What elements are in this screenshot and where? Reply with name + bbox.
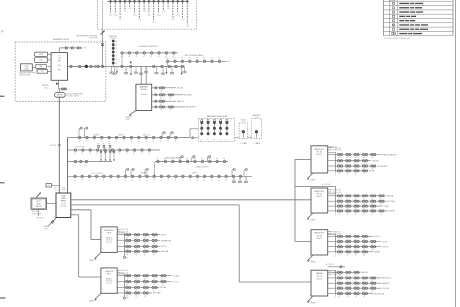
- svg-text:2/0: 2/0: [54, 188, 56, 190]
- svg-text:1ST FLR RECEPT: 1ST FLR RECEPT: [91, 173, 104, 175]
- svg-text:g1: g1: [339, 296, 341, 298]
- svg-text:BEDROOM 1: BEDROOM 1: [315, 149, 325, 151]
- svg-text:a1: a1: [111, 153, 113, 155]
- svg-text:a1: a1: [86, 141, 88, 143]
- svg-text:g1: g1: [161, 97, 163, 99]
- svg-text:a1: a1: [121, 56, 123, 58]
- svg-text:BEDROOM 4: BEDROOM 4: [104, 230, 114, 232]
- svg-text:g1: g1: [347, 254, 349, 256]
- svg-text:17: 17: [334, 174, 336, 176]
- svg-text:s1: s1: [225, 139, 227, 141]
- svg-text:2#12: 2#12: [181, 19, 185, 21]
- svg-text:a1: a1: [141, 153, 143, 155]
- svg-text:a1: a1: [74, 153, 76, 155]
- svg-text:b2: b2: [189, 58, 191, 60]
- svg-text:g1: g1: [153, 243, 155, 245]
- svg-text:2#12: 2#12: [162, 11, 166, 13]
- svg-text:g1: g1: [136, 284, 138, 286]
- svg-text:CTRL: CTRL: [39, 60, 43, 62]
- svg-text:a1: a1: [131, 179, 133, 181]
- svg-text:17: 17: [334, 297, 336, 299]
- svg-text:GFI DIM: GFI DIM: [160, 287, 167, 289]
- svg-text:g1: g1: [144, 296, 146, 298]
- svg-text:g1: g1: [136, 296, 138, 298]
- svg-text:a1: a1: [145, 141, 147, 143]
- svg-text:a1: a1: [80, 165, 82, 167]
- svg-text:g1: g1: [153, 284, 155, 286]
- svg-text:BEDROOM 3: BEDROOM 3: [315, 233, 325, 235]
- svg-text:b2: b2: [196, 58, 198, 60]
- svg-text:2#12: 2#12: [133, 15, 137, 17]
- svg-text:CO DET: CO DET: [240, 120, 246, 122]
- svg-text:15A DIM: 15A DIM: [372, 160, 379, 163]
- svg-text:g1: g1: [339, 157, 341, 159]
- svg-text:— AC CONDENS FEED —: — AC CONDENS FEED —: [183, 54, 205, 57]
- svg-text:a1: a1: [85, 165, 87, 167]
- svg-text:1PH 3W: 1PH 3W: [106, 283, 112, 285]
- svg-text:b2: b2: [186, 158, 188, 160]
- svg-text:g1: g1: [153, 237, 155, 239]
- svg-text:g1: g1: [339, 254, 341, 256]
- svg-text:2#12: 2#12: [152, 22, 156, 24]
- svg-text:g1: g1: [347, 296, 349, 298]
- svg-text:a1: a1: [96, 153, 98, 155]
- svg-text:a1: a1: [78, 141, 80, 143]
- svg-text:FU: FU: [41, 71, 43, 73]
- svg-text:KIT RECEPT: KIT RECEPT: [76, 147, 85, 149]
- svg-text:BASEMENT FINISH PLAN: BASEMENT FINISH PLAN: [207, 115, 228, 118]
- svg-text:17: 17: [334, 215, 336, 217]
- svg-text:WHOLE HOUSE GEN: WHOLE HOUSE GEN: [19, 72, 36, 74]
- svg-text:g1: g1: [127, 296, 129, 298]
- svg-text:a1: a1: [95, 179, 97, 181]
- svg-text:a1: a1: [150, 56, 152, 58]
- svg-text:a1: a1: [101, 141, 103, 143]
- svg-text:g1: g1: [153, 290, 155, 292]
- svg-text:2#12: 2#12: [148, 15, 152, 17]
- svg-text:a1: a1: [133, 153, 135, 155]
- svg-text:g1: g1: [153, 278, 155, 280]
- svg-text:g1: g1: [153, 254, 155, 256]
- svg-text:PANEL: PANEL: [61, 200, 66, 203]
- svg-text:FAN GFI: FAN GFI: [177, 100, 184, 103]
- svg-text:A SYM: A SYM: [390, 0, 396, 2]
- svg-text:SW: SW: [58, 70, 61, 72]
- svg-text:a1: a1: [74, 165, 76, 167]
- svg-text:20A GFI: 20A GFI: [389, 210, 396, 213]
- svg-text:g1: g1: [144, 284, 146, 286]
- svg-text:g1: g1: [162, 284, 164, 286]
- svg-text:2#12: 2#12: [176, 15, 180, 17]
- svg-text:b2: b2: [211, 58, 213, 60]
- svg-text:g1: g1: [380, 204, 382, 206]
- svg-text:g1: g1: [355, 214, 357, 216]
- svg-text:g1: g1: [363, 214, 365, 216]
- svg-text:HALL SD: HALL SD: [361, 271, 369, 274]
- svg-text:g1: g1: [136, 243, 138, 245]
- svg-text:g1: g1: [363, 173, 365, 175]
- svg-text:s1: s1: [200, 139, 202, 141]
- svg-text:a1: a1: [110, 179, 112, 181]
- svg-text:a1: a1: [160, 141, 162, 143]
- svg-text:a1: a1: [138, 141, 140, 143]
- svg-text:MTS: MTS: [39, 54, 42, 56]
- svg-text:BY UTILITY: BY UTILITY: [90, 38, 98, 40]
- svg-text:DIM BED RM: DIM BED RM: [161, 240, 172, 242]
- svg-text:a1: a1: [89, 153, 91, 155]
- svg-text:20A GFI: 20A GFI: [374, 251, 381, 254]
- svg-text:g1: g1: [347, 214, 349, 216]
- svg-text:g1: g1: [339, 173, 341, 175]
- svg-text:a1: a1: [175, 179, 177, 181]
- svg-text:a1: a1: [167, 179, 169, 181]
- svg-text:g1: g1: [144, 237, 146, 239]
- svg-text:42 CKT: 42 CKT: [61, 203, 66, 205]
- svg-text:AFCI FAN: AFCI FAN: [153, 292, 161, 295]
- svg-text:2/0 CU: 2/0 CU: [44, 87, 50, 89]
- svg-text:CLG 15A: CLG 15A: [382, 287, 390, 290]
- svg-text:CLG 15A: CLG 15A: [172, 275, 180, 278]
- svg-text:a1: a1: [173, 56, 175, 58]
- svg-text:DINING: DINING: [192, 173, 198, 175]
- svg-text:a1: a1: [124, 179, 126, 181]
- svg-text:1PH 3W: 1PH 3W: [106, 242, 112, 244]
- svg-text:a1: a1: [117, 179, 119, 181]
- svg-text:WP CO: WP CO: [161, 246, 167, 248]
- svg-text:g1: g1: [372, 157, 374, 159]
- svg-text:g1: g1: [127, 243, 129, 245]
- svg-text:a1: a1: [148, 153, 150, 155]
- svg-text:CLG KIT: CLG KIT: [382, 247, 389, 249]
- svg-text:SWITCH: SWITCH: [36, 206, 43, 208]
- svg-text:BED RM RECEPT: BED RM RECEPT: [383, 154, 397, 156]
- svg-text:g1: g1: [372, 214, 374, 216]
- svg-text:PNL B3: PNL B3: [317, 235, 323, 237]
- svg-text:20A 20A: 20A 20A: [387, 195, 394, 198]
- svg-text:a1: a1: [182, 179, 184, 181]
- svg-text:#2/0 CU: #2/0 CU: [50, 145, 57, 147]
- svg-text:CU: CU: [54, 190, 56, 192]
- svg-text:a1: a1: [139, 179, 141, 181]
- svg-text:a1: a1: [160, 179, 162, 181]
- svg-text:b2: b2: [218, 58, 220, 60]
- svg-text:2#12: 2#12: [167, 8, 171, 10]
- svg-text:g1: g1: [355, 173, 357, 175]
- svg-text:AFCI 20A: AFCI 20A: [161, 250, 169, 253]
- svg-text:SUB PNL: SUB PNL: [140, 89, 147, 91]
- svg-text:a1: a1: [126, 153, 128, 155]
- svg-text:LIVING RM: LIVING RM: [140, 173, 148, 175]
- svg-text:BEDRM 1: BEDRM 1: [93, 135, 100, 137]
- svg-text:CO SD: CO SD: [382, 241, 388, 243]
- svg-text:a1: a1: [196, 179, 198, 181]
- svg-text:a1: a1: [167, 141, 169, 143]
- svg-text:a1: a1: [82, 153, 84, 155]
- svg-text:a1: a1: [81, 179, 83, 181]
- svg-text:g1: g1: [355, 296, 357, 298]
- svg-text:g1: g1: [127, 237, 129, 239]
- svg-text:g1: g1: [162, 278, 164, 280]
- svg-text:a1: a1: [128, 56, 130, 58]
- svg-text:a1: a1: [203, 179, 205, 181]
- svg-text:a1: a1: [152, 141, 154, 143]
- svg-text:g1: g1: [127, 278, 129, 280]
- svg-text:b2: b2: [223, 158, 225, 160]
- svg-text:g1: g1: [127, 254, 129, 256]
- svg-text:g1: g1: [127, 284, 129, 286]
- svg-text:N: N: [1, 33, 2, 35]
- svg-text:120/240V: 120/240V: [60, 206, 66, 208]
- svg-text:a1: a1: [225, 179, 227, 181]
- svg-text:BEDRM 2: BEDRM 2: [118, 135, 125, 137]
- svg-text:a1: a1: [218, 179, 220, 181]
- svg-text:a1: a1: [153, 179, 155, 181]
- svg-text:a1: a1: [119, 153, 121, 155]
- svg-text:b2: b2: [194, 158, 196, 160]
- svg-text:a1: a1: [175, 141, 177, 143]
- svg-text:SD 15A: SD 15A: [177, 87, 184, 90]
- svg-text:2#12: 2#12: [138, 19, 142, 21]
- svg-text:g1: g1: [347, 157, 349, 159]
- svg-text:2#12: 2#12: [186, 26, 190, 28]
- svg-text:b2: b2: [203, 58, 205, 60]
- svg-text:a1: a1: [211, 179, 213, 181]
- svg-text:a1: a1: [108, 141, 110, 143]
- svg-text:2#12: 2#12: [172, 19, 176, 21]
- svg-text:2#12: 2#12: [157, 15, 161, 17]
- svg-text:g1: g1: [170, 110, 172, 112]
- svg-text:b2: b2: [209, 158, 211, 160]
- svg-text:FEED: FEED: [62, 190, 66, 192]
- svg-text:a1: a1: [93, 141, 95, 143]
- svg-text:g1: g1: [347, 173, 349, 175]
- svg-text:g1: g1: [144, 243, 146, 245]
- svg-text:b2: b2: [166, 58, 168, 60]
- svg-text:— LIGHTING CIRCUITS —: — LIGHTING CIRCUITS —: [137, 46, 159, 48]
- svg-text:b2: b2: [181, 58, 183, 60]
- svg-text:a1: a1: [136, 56, 138, 58]
- svg-text:g1: g1: [136, 254, 138, 256]
- svg-text:s1: s1: [207, 139, 209, 141]
- svg-text:GENERATOR ROOM: GENERATOR ROOM: [53, 38, 70, 41]
- svg-text:BEDROOM 2: BEDROOM 2: [315, 191, 325, 193]
- svg-text:2#12: 2#12: [124, 11, 128, 13]
- svg-text:2#12: 2#12: [119, 19, 123, 21]
- svg-text:a1: a1: [189, 179, 191, 181]
- svg-text:METER: METER: [57, 95, 63, 97]
- svg-text:SD WP: SD WP: [369, 171, 375, 173]
- svg-text:CLG CO: CLG CO: [374, 236, 381, 238]
- svg-text:BED RM 20A: BED RM 20A: [374, 292, 385, 295]
- svg-text:17: 17: [334, 255, 336, 257]
- svg-text:a1: a1: [123, 141, 125, 143]
- svg-text:b2: b2: [201, 158, 203, 160]
- svg-text:2#12: 2#12: [109, 15, 113, 17]
- svg-text:LIVING RM: LIVING RM: [105, 271, 114, 273]
- svg-text:a1: a1: [165, 56, 167, 58]
- svg-text:g1: g1: [363, 296, 365, 298]
- svg-text:120/240V: 120/240V: [106, 240, 112, 242]
- svg-text:SD KIT: SD KIT: [161, 235, 166, 237]
- svg-text:WP RECEPT: WP RECEPT: [186, 107, 196, 109]
- svg-text:PNL G1: PNL G1: [316, 276, 322, 278]
- svg-text:a1: a1: [130, 141, 132, 143]
- svg-text:b2: b2: [174, 58, 176, 60]
- svg-text:g1: g1: [144, 254, 146, 256]
- svg-text:s1: s1: [213, 139, 215, 141]
- svg-text:BED RM CO: BED RM CO: [382, 278, 392, 280]
- svg-text:g1: g1: [144, 278, 146, 280]
- svg-text:a1: a1: [115, 141, 117, 143]
- svg-text:g1: g1: [136, 278, 138, 280]
- svg-text:g1: g1: [363, 157, 365, 159]
- svg-text:CO CLG: CO CLG: [172, 281, 179, 283]
- svg-text:GEN FEED: GEN FEED: [36, 217, 45, 219]
- svg-text:g1: g1: [136, 237, 138, 239]
- svg-text:PNL B2: PNL B2: [317, 194, 323, 196]
- svg-text:2#12: 2#12: [114, 15, 118, 17]
- svg-text:a1: a1: [143, 56, 145, 58]
- svg-text:g1: g1: [161, 110, 163, 112]
- svg-text:b2: b2: [216, 158, 218, 160]
- svg-text:CT: CT: [48, 185, 50, 187]
- svg-text:FAN RM 2: FAN RM 2: [382, 282, 390, 285]
- svg-text:PNL B1: PNL B1: [317, 151, 323, 153]
- svg-text:g1: g1: [170, 97, 172, 99]
- svg-text:CLG RECEPT: CLG RECEPT: [377, 166, 388, 168]
- svg-text:RM 2 FAN: RM 2 FAN: [184, 94, 193, 97]
- svg-text:g1: g1: [161, 90, 163, 92]
- svg-text:a1: a1: [146, 179, 148, 181]
- svg-text:b2: b2: [157, 158, 159, 160]
- svg-text:g1: g1: [339, 214, 341, 216]
- svg-text:a1: a1: [88, 179, 90, 181]
- svg-text:s1: s1: [219, 139, 221, 141]
- svg-text:20KW: 20KW: [24, 68, 29, 70]
- svg-text:a1: a1: [158, 56, 160, 58]
- svg-text:CO SW: CO SW: [383, 206, 389, 208]
- svg-text:2#12: 2#12: [143, 11, 147, 13]
- svg-text:g1: g1: [380, 214, 382, 216]
- svg-text:g1: g1: [355, 157, 357, 159]
- svg-text:RM 2 RM 2: RM 2 RM 2: [387, 201, 396, 203]
- svg-text:2#12: 2#12: [128, 8, 132, 10]
- svg-text:a1: a1: [74, 179, 76, 181]
- svg-text:PNL L: PNL L: [107, 274, 111, 276]
- svg-text:g1: g1: [363, 254, 365, 256]
- svg-text:b2: b2: [164, 158, 166, 160]
- svg-text:b2: b2: [172, 158, 174, 160]
- svg-text:FEEDER: FEEDER: [42, 85, 49, 87]
- svg-text:120/240V: 120/240V: [106, 281, 112, 283]
- svg-text:g1: g1: [355, 254, 357, 256]
- svg-text:a1: a1: [103, 179, 105, 181]
